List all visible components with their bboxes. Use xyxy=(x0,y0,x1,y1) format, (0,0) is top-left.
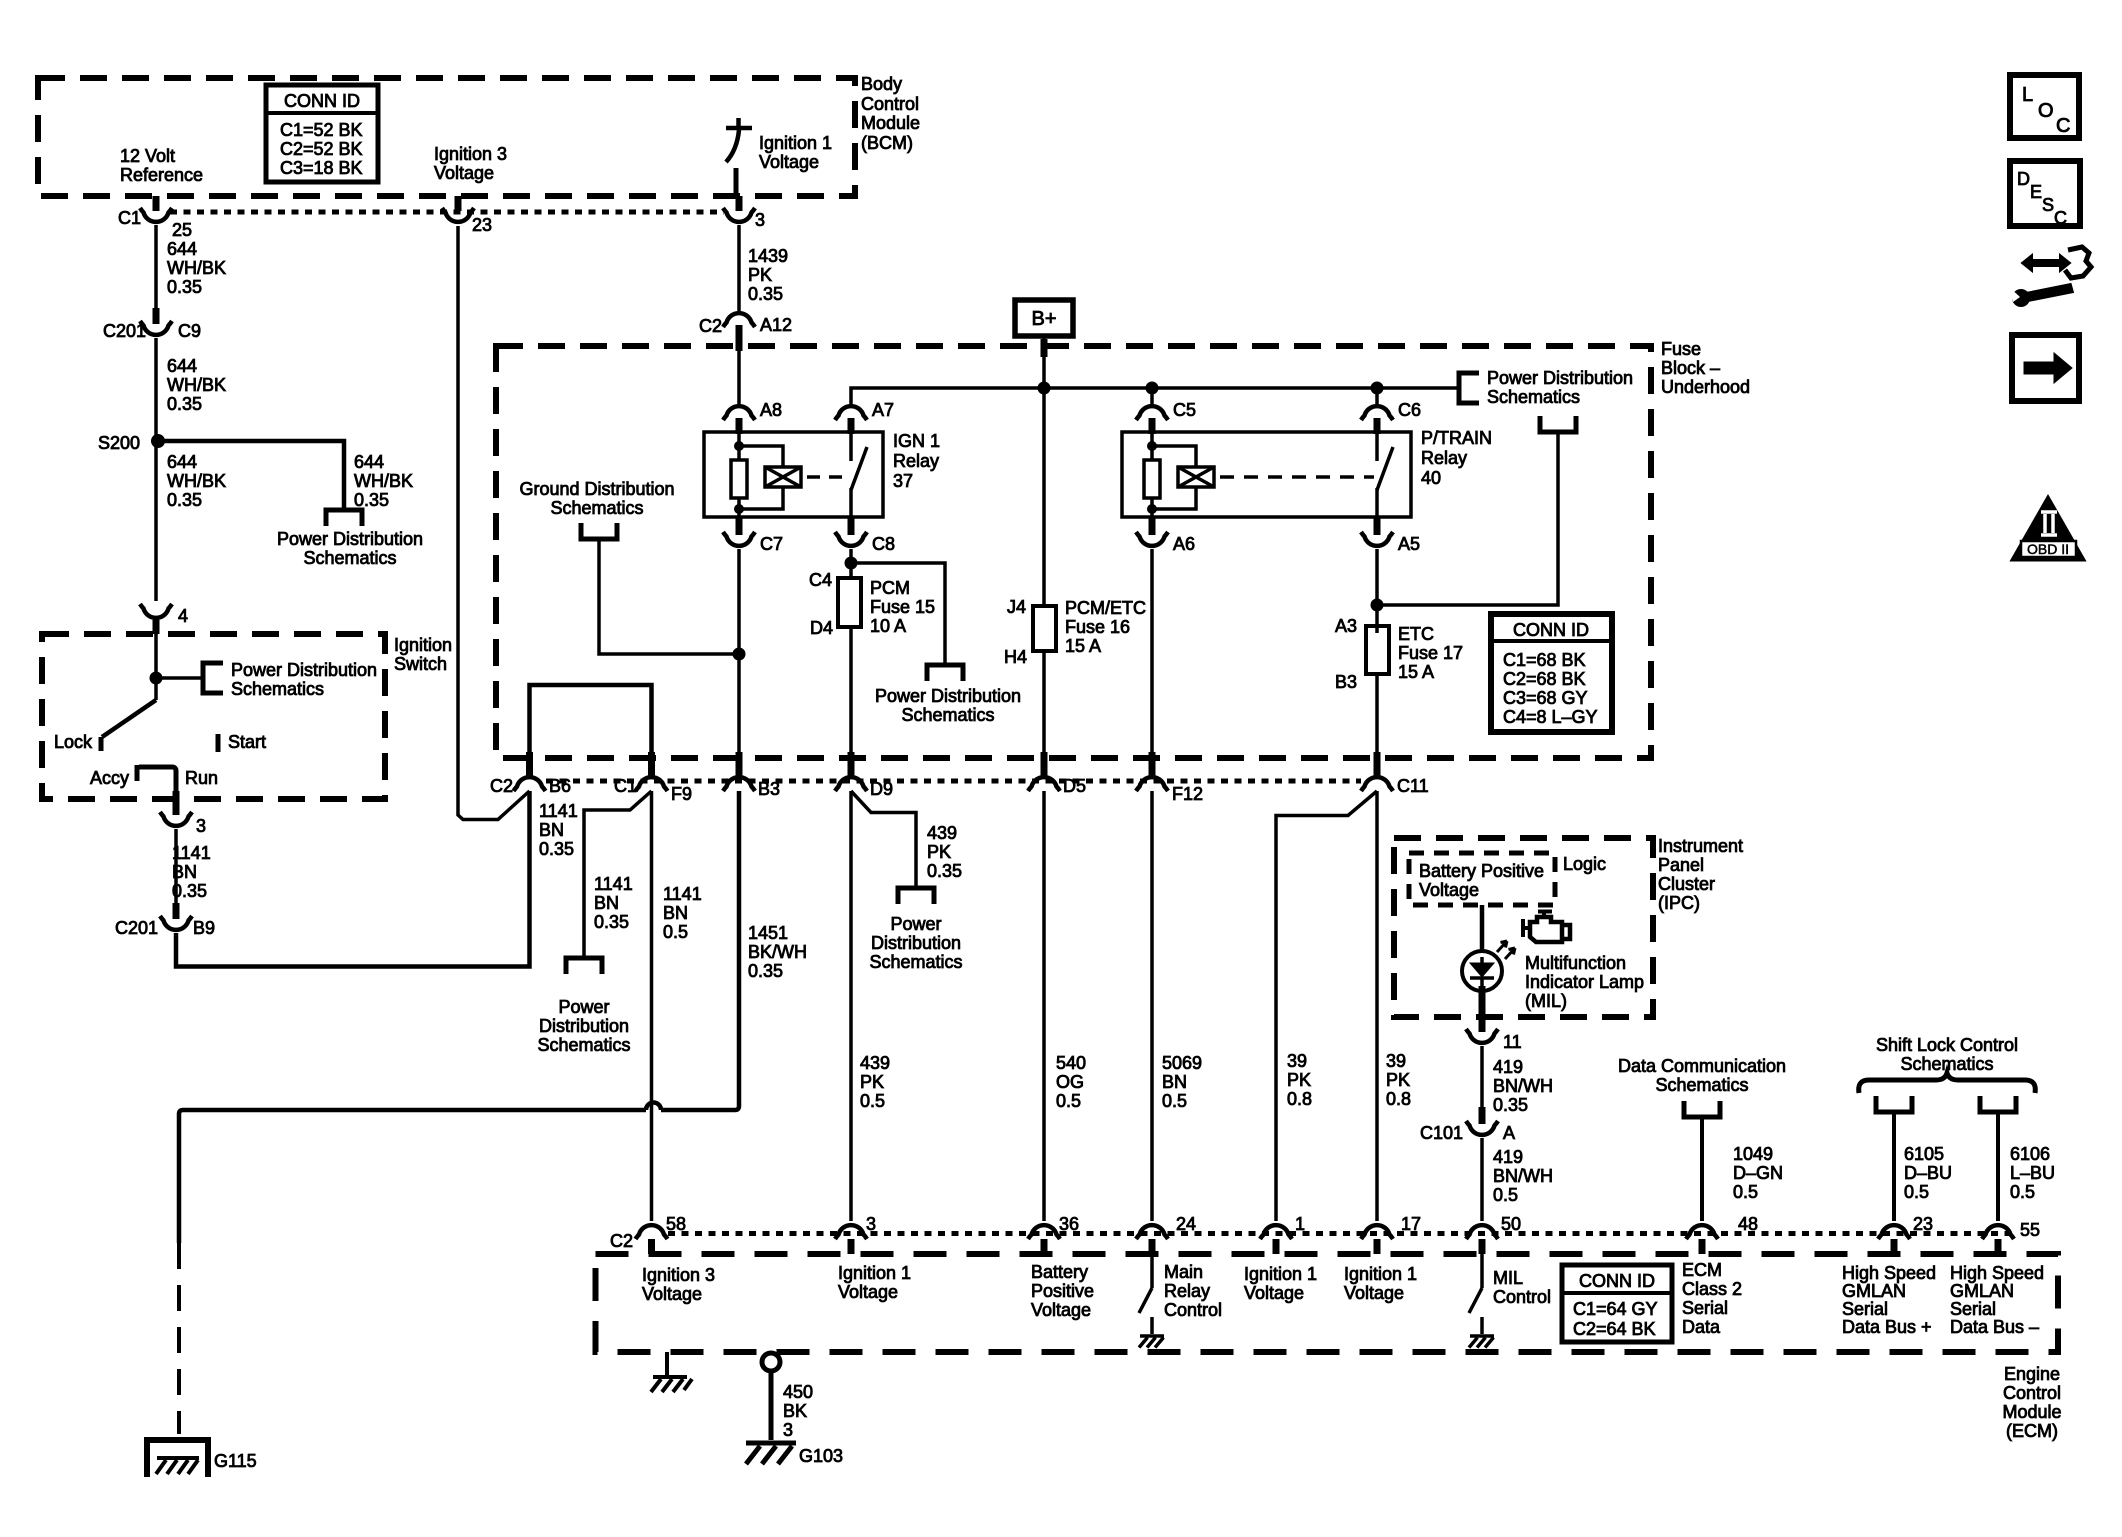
icon LOC box xyxy=(2010,75,2079,138)
svg-text:BN/WH: BN/WH xyxy=(1493,1166,1553,1186)
svg-text:BN: BN xyxy=(1162,1072,1187,1092)
svg-text:BK: BK xyxy=(783,1401,807,1421)
table CONN ID (fuse block) xyxy=(1491,614,1612,732)
svg-text:OBD II: OBD II xyxy=(2027,541,2069,557)
connector C2 A12 xyxy=(723,313,755,327)
connector C6 xyxy=(1361,406,1393,420)
wire F12 down to ECM 24 xyxy=(1150,791,1154,1221)
linkage dashed xyxy=(1220,475,1374,479)
svg-text:Fuse 15: Fuse 15 xyxy=(870,597,935,617)
svg-text:BN: BN xyxy=(539,820,564,840)
icon DESC box xyxy=(2010,161,2080,228)
switch wiper blade (to Lock) xyxy=(102,700,156,737)
connector A8 xyxy=(723,406,755,420)
svg-text:Run: Run xyxy=(185,768,218,788)
connector B6 (fuse block C2) xyxy=(526,752,533,776)
svg-text:644: 644 xyxy=(167,452,197,472)
light emission arrows xyxy=(1497,941,1507,952)
svg-text:0.35: 0.35 xyxy=(172,881,207,901)
svg-text:48: 48 xyxy=(1738,1214,1758,1234)
lamp MIL (LED symbol) xyxy=(1462,941,1515,991)
svg-text:PK: PK xyxy=(1287,1070,1311,1090)
svg-text:Data Bus +: Data Bus + xyxy=(1842,1317,1932,1337)
svg-text:C2: C2 xyxy=(610,1231,633,1251)
connector B3 xyxy=(736,752,743,776)
off-page reference Power Distribution Schematics (F9 branch) xyxy=(566,958,602,974)
svg-text:(IPC): (IPC) xyxy=(1658,893,1700,913)
wire ETC fuse down to C11 xyxy=(1375,674,1379,752)
svg-text:Distribution: Distribution xyxy=(539,1016,629,1036)
svg-text:C4=8 L–GY: C4=8 L–GY xyxy=(1503,707,1598,727)
svg-text:Power: Power xyxy=(890,914,941,934)
svg-text:D: D xyxy=(2017,169,2030,189)
svg-text:0.5: 0.5 xyxy=(1733,1182,1758,1202)
off-page reference Power Distribution Schematics (A5 branch bracket) xyxy=(1540,416,1576,432)
ground (main relay control) xyxy=(1139,1336,1164,1348)
svg-text:17: 17 xyxy=(1401,1214,1421,1234)
svg-text:Module: Module xyxy=(2002,1402,2061,1422)
svg-text:Data: Data xyxy=(1682,1317,1721,1337)
svg-text:23: 23 xyxy=(1913,1214,1933,1234)
contact tick Start xyxy=(216,734,221,752)
svg-text:0.5: 0.5 xyxy=(1056,1091,1081,1111)
svg-text:A3: A3 xyxy=(1335,616,1357,636)
svg-text:0.35: 0.35 xyxy=(167,394,202,414)
svg-text:B6: B6 xyxy=(549,776,571,796)
splice ring G103 on ECM edge xyxy=(762,1353,780,1371)
svg-text:5069: 5069 xyxy=(1162,1053,1202,1073)
wire B9 to fuse block B6 xyxy=(176,791,530,967)
svg-text:Schematics: Schematics xyxy=(869,952,962,972)
svg-text:3: 3 xyxy=(196,816,206,836)
svg-text:419: 419 xyxy=(1493,1147,1523,1167)
relay coil actuator (X box) xyxy=(739,446,783,467)
module box Ignition Switch xyxy=(42,634,385,799)
svg-text:1049: 1049 xyxy=(1733,1144,1773,1164)
wire 1439 PK from BCM pin 3 xyxy=(737,225,741,312)
wire A5 down through ETC fuse xyxy=(1375,549,1379,633)
svg-text:(MIL): (MIL) xyxy=(1525,991,1567,1011)
svg-text:Shift Lock Control: Shift Lock Control xyxy=(1876,1035,2018,1055)
svg-text:GMLAN: GMLAN xyxy=(1842,1281,1906,1301)
svg-text:WH/BK: WH/BK xyxy=(167,258,226,278)
svg-text:A7: A7 xyxy=(872,400,894,420)
wire B3 down and across to G115 riser xyxy=(179,791,739,1243)
svg-text:Battery: Battery xyxy=(1031,1262,1088,1282)
svg-text:Schematics: Schematics xyxy=(537,1035,630,1055)
svg-text:C2=64 BK: C2=64 BK xyxy=(1573,1319,1656,1339)
switch MIL Control (ECM internal) xyxy=(1469,1254,1482,1334)
table CONN ID (ECM) xyxy=(1562,1265,1672,1342)
connector F9 (fuse block C1) xyxy=(648,752,655,776)
connector C8 xyxy=(848,517,855,535)
svg-text:Schematics: Schematics xyxy=(1655,1075,1748,1095)
svg-text:0.5: 0.5 xyxy=(860,1091,885,1111)
svg-text:Ignition: Ignition xyxy=(394,635,452,655)
svg-text:C1: C1 xyxy=(614,776,637,796)
svg-text:C2=52 BK: C2=52 BK xyxy=(280,139,363,159)
svg-text:25: 25 xyxy=(172,220,192,240)
svg-text:439: 439 xyxy=(860,1053,890,1073)
svg-text:58: 58 xyxy=(666,1214,686,1234)
svg-text:50: 50 xyxy=(1501,1214,1521,1234)
svg-text:Power: Power xyxy=(558,997,609,1017)
relay switch contact xyxy=(1375,432,1379,461)
svg-text:Indicator Lamp: Indicator Lamp xyxy=(1525,972,1644,992)
svg-text:Serial: Serial xyxy=(1950,1299,1996,1319)
svg-text:Engine: Engine xyxy=(2004,1364,2060,1384)
svg-text:1141: 1141 xyxy=(594,874,633,894)
svg-text:15 A: 15 A xyxy=(1065,636,1101,656)
svg-text:D4: D4 xyxy=(810,618,833,638)
svg-text:1: 1 xyxy=(1295,1214,1305,1234)
svg-text:G103: G103 xyxy=(799,1446,843,1466)
svg-text:4: 4 xyxy=(178,606,188,626)
svg-text:WH/BK: WH/BK xyxy=(167,471,226,491)
svg-text:37: 37 xyxy=(893,471,913,491)
svg-text:12 Volt: 12 Volt xyxy=(120,146,175,166)
svg-text:ECM: ECM xyxy=(1682,1260,1722,1280)
svg-text:Voltage: Voltage xyxy=(759,152,819,172)
svg-text:0.35: 0.35 xyxy=(354,490,389,510)
svg-text:450: 450 xyxy=(783,1382,813,1402)
wire D5 down to ECM 36 xyxy=(1042,791,1046,1221)
svg-text:CONN ID: CONN ID xyxy=(1513,620,1589,640)
svg-text:15 A: 15 A xyxy=(1398,662,1434,682)
node bus/C5 xyxy=(1146,382,1159,395)
svg-text:BN: BN xyxy=(594,893,619,913)
svg-text:C5: C5 xyxy=(1173,400,1196,420)
relay coil (resistor) xyxy=(737,432,741,460)
svg-text:3: 3 xyxy=(866,1214,876,1234)
fuse PCM/ETC Fuse 16 15A xyxy=(1042,388,1046,606)
svg-text:1451: 1451 xyxy=(748,923,788,943)
svg-text:3: 3 xyxy=(783,1420,793,1440)
off-page reference GMLAN bus - (bracket) xyxy=(1980,1096,2016,1112)
module box ECM xyxy=(596,1254,2059,1352)
connector C5 xyxy=(1136,406,1168,420)
relay coil actuator (X box) xyxy=(1152,446,1196,467)
svg-text:Fuse 16: Fuse 16 xyxy=(1065,617,1130,637)
connector A7 xyxy=(835,406,867,420)
BCM connector dotted line xyxy=(170,210,724,215)
svg-text:B+: B+ xyxy=(1031,308,1056,330)
pin 58 (ECM C2) xyxy=(636,1225,668,1239)
svg-text:Instrument: Instrument xyxy=(1658,836,1743,856)
svg-text:0.35: 0.35 xyxy=(1493,1095,1528,1115)
svg-text:Lock: Lock xyxy=(54,732,93,752)
svg-text:ETC: ETC xyxy=(1398,624,1434,644)
label B+ xyxy=(1015,300,1073,336)
svg-text:C4: C4 xyxy=(809,570,832,590)
connector C101 A xyxy=(1479,1107,1486,1124)
off-page reference Power Distribution Schematics (PCM fuse feed) xyxy=(927,665,963,681)
svg-text:C9: C9 xyxy=(178,321,201,341)
switch icon Ignition 1 Voltage (BCM internal) xyxy=(726,118,752,196)
wire class 2 serial data to ECM 48 xyxy=(1700,1117,1704,1221)
svg-text:1141: 1141 xyxy=(172,843,211,863)
svg-text:Power Distribution: Power Distribution xyxy=(231,660,377,680)
brace shift lock xyxy=(1859,1073,2036,1093)
bus B+ horizontal (to A7 and relays) xyxy=(851,388,1459,404)
svg-text:C1=64 GY: C1=64 GY xyxy=(1573,1299,1658,1319)
svg-text:C3=68 GY: C3=68 GY xyxy=(1503,688,1588,708)
module box Fuse Block Underhood xyxy=(496,346,1651,758)
wire C7 down to B3 xyxy=(737,549,741,752)
svg-text:1141: 1141 xyxy=(663,884,702,904)
svg-text:O: O xyxy=(2038,100,2054,122)
icon OBD II triangle xyxy=(2012,497,2084,560)
connector C11 xyxy=(1374,752,1381,776)
wire C101 down to ECM 50 xyxy=(1480,1138,1484,1221)
wire A12 to A8 xyxy=(737,346,741,404)
svg-text:PK: PK xyxy=(748,265,772,285)
svg-text:0.35: 0.35 xyxy=(927,861,962,881)
svg-text:GMLAN: GMLAN xyxy=(1950,1281,2014,1301)
stub through switch box xyxy=(173,791,180,815)
svg-text:High Speed: High Speed xyxy=(1842,1263,1936,1283)
svg-text:C: C xyxy=(2056,115,2070,137)
svg-text:PCM: PCM xyxy=(870,578,910,598)
svg-text:36: 36 xyxy=(1059,1214,1079,1234)
relay P/TRAIN Relay 40 xyxy=(1122,428,1492,517)
wire S200 down to pin 4 xyxy=(154,441,158,601)
stub B+ through fuse box edge xyxy=(1041,339,1048,357)
off-page reference Power Distribution Schematics (D9 branch) xyxy=(898,888,934,904)
svg-text:CONN ID: CONN ID xyxy=(284,91,360,111)
svg-text:C1=52 BK: C1=52 BK xyxy=(280,120,363,140)
table CONN ID (BCM) xyxy=(266,85,378,182)
wire dashed to G115 xyxy=(177,1243,181,1434)
connector A6 xyxy=(1149,517,1156,535)
wire 1141 BN xyxy=(174,829,178,903)
node C7/ground-distribution junction xyxy=(733,648,746,661)
ground (MIL control) xyxy=(1469,1336,1494,1348)
svg-text:Relay: Relay xyxy=(1164,1281,1210,1301)
connector C201 B9 xyxy=(173,903,180,919)
svg-text:11: 11 xyxy=(1503,1032,1522,1052)
svg-text:Schematics: Schematics xyxy=(550,498,643,518)
pin 23 (BCM) xyxy=(455,196,462,211)
svg-text:A5: A5 xyxy=(1398,534,1420,554)
wire D9 branch diagonal to power distribution xyxy=(851,791,916,888)
svg-text:Ignition 1: Ignition 1 xyxy=(838,1263,911,1283)
svg-text:A8: A8 xyxy=(760,400,782,420)
svg-text:419: 419 xyxy=(1493,1057,1523,1077)
wire ground distribution to C7 wire xyxy=(599,539,739,654)
svg-text:Schematics: Schematics xyxy=(303,548,396,568)
wire battery positive to MIL lamp xyxy=(1480,905,1485,951)
connector A5 xyxy=(1374,517,1381,535)
svg-text:C8: C8 xyxy=(872,534,895,554)
svg-text:0.5: 0.5 xyxy=(2010,1182,2035,1202)
svg-text:Control: Control xyxy=(861,94,919,114)
svg-text:J4: J4 xyxy=(1007,597,1026,617)
pin C1 25 (BCM) xyxy=(153,196,160,211)
svg-text:C7: C7 xyxy=(760,534,783,554)
off-page reference Power Distribution Schematics (ignition switch) xyxy=(203,663,223,693)
svg-text:H4: H4 xyxy=(1004,647,1027,667)
pin 55 (ECM) xyxy=(1982,1225,2014,1239)
svg-text:1141: 1141 xyxy=(539,801,578,821)
svg-text:Control: Control xyxy=(2003,1383,2061,1403)
fuse PCM Fuse 15 10A xyxy=(838,578,861,627)
box Battery Positive Voltage xyxy=(1409,853,1555,905)
svg-text:24: 24 xyxy=(1176,1214,1196,1234)
svg-text:Voltage: Voltage xyxy=(1031,1300,1091,1320)
svg-text:BK/WH: BK/WH xyxy=(748,942,807,962)
node S200 xyxy=(151,434,165,448)
fuse ETC Fuse 17 15A xyxy=(1366,626,1389,674)
svg-text:Logic: Logic xyxy=(1563,854,1606,874)
relay switch contact xyxy=(849,432,853,461)
svg-text:Multifunction: Multifunction xyxy=(1525,953,1626,973)
svg-text:Ignition 1: Ignition 1 xyxy=(1244,1264,1317,1284)
svg-text:1439: 1439 xyxy=(748,246,788,266)
svg-text:D–GN: D–GN xyxy=(1733,1163,1783,1183)
svg-text:S200: S200 xyxy=(98,433,140,453)
wire B6-F9 bridge inside fuse block xyxy=(530,685,652,757)
svg-text:E: E xyxy=(2030,182,2042,202)
connector C7 xyxy=(736,517,743,535)
svg-text:644: 644 xyxy=(167,356,197,376)
svg-text:B3: B3 xyxy=(758,779,780,799)
pin 11 (IPC) xyxy=(1479,986,1486,1032)
svg-text:C2=68 BK: C2=68 BK xyxy=(1503,669,1586,689)
icon forward arrow box xyxy=(2012,335,2079,401)
svg-text:CONN ID: CONN ID xyxy=(1579,1271,1655,1291)
connector D9 xyxy=(848,752,855,776)
node bus/B+ xyxy=(1038,382,1051,395)
svg-text:Control: Control xyxy=(1164,1300,1222,1320)
module box IPC xyxy=(1394,838,1653,1017)
svg-text:D9: D9 xyxy=(870,779,893,799)
svg-text:BN: BN xyxy=(663,903,688,923)
pin 3 (BCM) xyxy=(736,196,743,211)
svg-text:Voltage: Voltage xyxy=(838,1282,898,1302)
svg-text:D5: D5 xyxy=(1063,776,1086,796)
svg-text:Distribution: Distribution xyxy=(871,933,961,953)
svg-text:WH/BK: WH/BK xyxy=(354,471,413,491)
contact tick Accy xyxy=(135,765,140,781)
wire S200 branch to power distribution xyxy=(158,441,344,510)
off-page reference Data Communication (bracket) xyxy=(1684,1101,1720,1117)
pin 24 (ECM) xyxy=(1136,1225,1168,1239)
svg-text:39: 39 xyxy=(1287,1051,1307,1071)
svg-text:Schematics: Schematics xyxy=(231,679,324,699)
wire Run output xyxy=(139,767,176,791)
svg-text:Module: Module xyxy=(861,113,920,133)
svg-text:540: 540 xyxy=(1056,1053,1086,1073)
svg-text:439: 439 xyxy=(927,823,957,843)
svg-text:A6: A6 xyxy=(1173,534,1195,554)
svg-text:Data Communication: Data Communication xyxy=(1618,1056,1786,1076)
wire B6 diagonal to ignition-3 column xyxy=(458,226,530,820)
svg-text:Accy: Accy xyxy=(90,768,129,788)
svg-text:BN/WH: BN/WH xyxy=(1493,1076,1553,1096)
svg-text:Fuse 17: Fuse 17 xyxy=(1398,643,1463,663)
svg-text:B3: B3 xyxy=(1335,672,1357,692)
svg-text:0.5: 0.5 xyxy=(1904,1182,1929,1202)
linkage dashed xyxy=(807,475,848,479)
svg-text:L: L xyxy=(2022,84,2033,106)
svg-text:Power Distribution: Power Distribution xyxy=(1487,368,1633,388)
svg-text:Ground Distribution: Ground Distribution xyxy=(519,479,674,499)
wire C6 stub from bus xyxy=(1375,388,1379,404)
svg-text:0.35: 0.35 xyxy=(167,277,202,297)
svg-text:G115: G115 xyxy=(214,1451,257,1471)
wire 450 BK to G103 xyxy=(769,1371,774,1440)
svg-text:Serial: Serial xyxy=(1682,1298,1728,1318)
svg-text:C6: C6 xyxy=(1398,400,1421,420)
wire C11 diagonal to ECM pin 1 xyxy=(1276,791,1377,1221)
svg-text:Voltage: Voltage xyxy=(434,163,494,183)
pin 1 (ECM) xyxy=(1260,1225,1292,1239)
svg-text:C201: C201 xyxy=(115,918,158,938)
svg-text:Fuse: Fuse xyxy=(1661,339,1701,359)
svg-text:Schematics: Schematics xyxy=(1487,387,1580,407)
svg-text:0.8: 0.8 xyxy=(1287,1089,1312,1109)
svg-text:Panel: Panel xyxy=(1658,855,1704,875)
svg-text:Underhood: Underhood xyxy=(1661,377,1750,397)
switch Main Relay Control (ECM internal) xyxy=(1139,1254,1152,1334)
svg-text:23: 23 xyxy=(472,215,492,235)
off-page reference Power Distribution Schematics (fuse block top) xyxy=(1459,373,1479,403)
svg-text:L–BU: L–BU xyxy=(2010,1163,2055,1183)
wire C5 stub from bus xyxy=(1150,388,1154,404)
svg-text:6106: 6106 xyxy=(2010,1144,2050,1164)
svg-text:Start: Start xyxy=(228,732,266,752)
svg-text:39: 39 xyxy=(1386,1051,1406,1071)
wire B+ down xyxy=(1042,336,1046,388)
svg-text:0.35: 0.35 xyxy=(539,839,574,859)
pin 36 (ECM) xyxy=(1028,1225,1060,1239)
svg-text:10 A: 10 A xyxy=(870,616,906,636)
connector C201 C9 xyxy=(153,308,160,324)
wire GMLAN - to ECM 55 xyxy=(1996,1112,2000,1221)
svg-text:BN: BN xyxy=(172,862,197,882)
icon engine (MIL pictogram) xyxy=(1523,912,1570,943)
svg-text:Control: Control xyxy=(1493,1287,1551,1307)
wire 419 BN/WH xyxy=(1480,1046,1484,1107)
ground G103 xyxy=(746,1443,796,1464)
svg-text:Power Distribution: Power Distribution xyxy=(875,686,1021,706)
svg-text:Voltage: Voltage xyxy=(642,1284,702,1304)
ECM connector dotted line xyxy=(668,1231,2013,1236)
connector F12 xyxy=(1149,752,1156,776)
svg-text:0.35: 0.35 xyxy=(167,490,202,510)
off-page reference Ground Distribution (bracket) xyxy=(581,523,617,539)
svg-text:Relay: Relay xyxy=(893,451,939,471)
svg-text:0.5: 0.5 xyxy=(1162,1091,1187,1111)
wire A6 down to F12 xyxy=(1150,549,1154,752)
svg-text:C: C xyxy=(2054,208,2067,228)
svg-text:Positive: Positive xyxy=(1031,1281,1094,1301)
svg-text:0.5: 0.5 xyxy=(1493,1185,1518,1205)
svg-text:0.35: 0.35 xyxy=(594,912,629,932)
fuse block connector dotted line xyxy=(546,779,1361,784)
crossover hump (1110 over pin58 wire) xyxy=(646,1103,661,1110)
wire 644 WH/BK to S200 xyxy=(154,338,158,441)
svg-text:(BCM): (BCM) xyxy=(861,133,913,153)
svg-text:Block –: Block – xyxy=(1661,358,1720,378)
wire A5 branch to power distribution bracket xyxy=(1377,434,1558,605)
svg-text:PK: PK xyxy=(1386,1070,1410,1090)
contact tick Lock xyxy=(99,737,104,751)
svg-text:C1: C1 xyxy=(118,208,141,228)
svg-text:Voltage: Voltage xyxy=(1419,880,1479,900)
pin 17 (ECM) xyxy=(1361,1225,1393,1239)
